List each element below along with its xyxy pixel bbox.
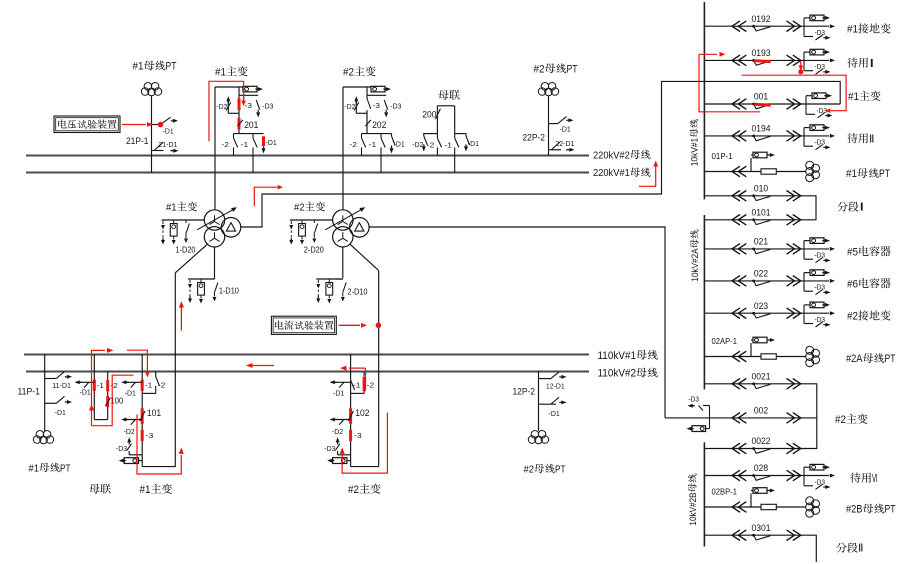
svg-text:-D2: -D2 [332,427,343,436]
svg-text:0193: 0193 [752,48,771,59]
svg-text:-D1: -D1 [266,138,277,147]
svg-text:22-D1: 22-D1 [556,139,575,148]
svg-text:#1: #1 [846,168,857,180]
svg-text:220kV#1: 220kV#1 [593,167,630,179]
svg-text:#2: #2 [294,202,305,214]
svg-text:2-D10: 2-D10 [348,288,368,297]
svg-text:-2: -2 [350,140,358,149]
svg-text:-D3: -D3 [815,140,826,147]
svg-text:-D2: -D2 [412,140,423,149]
svg-text:-2: -2 [222,140,230,149]
svg-text:02BP-1: 02BP-1 [712,487,738,497]
svg-text:-D1: -D1 [394,140,405,149]
svg-text:0301: 0301 [752,523,771,534]
svg-text:-D3: -D3 [817,108,828,115]
svg-text:#2B: #2B [846,504,863,516]
svg-text:-3: -3 [244,101,252,110]
svg-text:-2: -2 [158,381,166,390]
svg-text:0021: 0021 [752,372,771,383]
svg-text:#1: #1 [215,67,226,79]
svg-text:#2: #2 [534,63,545,75]
svg-text:#1: #1 [29,462,40,474]
svg-text:201: 201 [244,120,258,131]
svg-text:Ⅰ: Ⅰ [859,202,865,214]
svg-text:-D1: -D1 [55,408,66,417]
svg-text:21P-1: 21P-1 [126,136,149,146]
svg-text:102: 102 [355,408,369,419]
svg-text:#2: #2 [348,484,359,496]
svg-text:12P-2: 12P-2 [513,387,536,397]
svg-text:2-D20: 2-D20 [304,246,324,255]
svg-text:#2: #2 [847,311,858,323]
svg-text:PT: PT [879,168,890,180]
svg-text:#2: #2 [835,414,846,426]
svg-text:-D3: -D3 [689,397,700,404]
svg-text:-D1: -D1 [163,126,174,135]
svg-text:-D3: -D3 [815,285,826,292]
svg-text:0194: 0194 [752,124,771,135]
svg-text:-D3: -D3 [815,317,826,324]
svg-text:-1: -1 [145,381,153,390]
svg-text:01P-1: 01P-1 [712,151,733,161]
svg-text:-D3: -D3 [815,30,826,37]
svg-text:#1: #1 [133,61,144,73]
svg-text:#1: #1 [847,24,858,36]
svg-text:023: 023 [754,301,768,312]
svg-text:0101: 0101 [752,208,771,219]
svg-text:02AP-1: 02AP-1 [712,336,738,346]
svg-text:0022: 0022 [752,436,771,447]
svg-text:-3: -3 [146,431,154,440]
svg-text:Ⅱ: Ⅱ [858,543,864,555]
svg-text:-D1: -D1 [333,389,344,398]
svg-text:-D1: -D1 [560,124,571,133]
svg-text:PT: PT [567,63,578,75]
svg-text:-D3: -D3 [815,479,826,486]
svg-text:-2: -2 [367,381,375,390]
svg-text:#1: #1 [848,91,859,103]
svg-text:-D3: -D3 [324,444,335,453]
svg-text:1-D10: 1-D10 [219,287,239,296]
svg-text:Ⅰ: Ⅰ [869,58,875,70]
svg-text:-2: -2 [110,381,118,390]
svg-text:#6: #6 [847,278,858,290]
svg-text:-D2: -D2 [216,102,227,111]
svg-text:110kV#2: 110kV#2 [598,368,637,380]
svg-text:Ⅱ: Ⅱ [869,133,875,145]
svg-text:PT: PT [555,463,566,475]
svg-text:022: 022 [754,269,768,280]
svg-text:-3: -3 [354,431,362,440]
svg-text:-1: -1 [97,381,105,390]
svg-text:001: 001 [754,92,768,103]
svg-text:021: 021 [754,237,768,248]
svg-text:-D3: -D3 [390,102,401,111]
svg-text:202: 202 [372,120,386,131]
svg-text:-1: -1 [353,381,361,390]
svg-text:PT: PT [885,504,896,516]
svg-text:-3: -3 [372,101,380,110]
svg-text:PT: PT [60,462,71,474]
svg-text:#5: #5 [847,246,858,258]
svg-text:-D3: -D3 [815,253,826,260]
svg-text:0192: 0192 [752,14,771,25]
svg-text:101: 101 [147,408,161,419]
svg-text:1-D20: 1-D20 [176,246,196,255]
svg-text:-1: -1 [241,140,249,149]
svg-text:11-D1: 11-D1 [52,381,71,390]
svg-text:12-D1: 12-D1 [546,382,565,391]
svg-text:002: 002 [754,406,768,417]
svg-text:#2A: #2A [846,353,863,365]
svg-text:Ⅵ: Ⅵ [872,473,878,485]
svg-text:200: 200 [422,110,436,121]
svg-text:11P-1: 11P-1 [18,386,41,396]
svg-text:-1: -1 [444,140,452,149]
svg-text:010: 010 [754,184,768,195]
svg-text:#2: #2 [343,67,354,79]
svg-text:#2: #2 [524,463,535,475]
svg-text:#1: #1 [140,484,151,496]
svg-text:PT: PT [166,61,177,73]
svg-text:110kV#1: 110kV#1 [598,350,637,362]
svg-text:-D2: -D2 [124,427,135,436]
svg-text:-2: -2 [427,140,435,149]
svg-text:-D3: -D3 [815,64,826,71]
svg-text:220kV#2: 220kV#2 [593,149,630,161]
svg-text:-D1: -D1 [125,389,136,398]
svg-text:-D1: -D1 [549,409,560,418]
svg-text:-1: -1 [369,140,377,149]
svg-text:-D1: -D1 [468,139,479,148]
svg-text:-D1: -D1 [80,388,91,397]
svg-text:-D3: -D3 [262,102,273,111]
svg-text:10kV#2B: 10kV#2B [688,492,699,525]
svg-text:-D3: -D3 [116,444,127,453]
svg-text:10kV#1: 10kV#1 [689,138,700,167]
svg-text:10kV#2A: 10kV#2A [690,248,701,282]
svg-text:22P-2: 22P-2 [523,133,546,143]
svg-text:-D2: -D2 [344,102,355,111]
svg-text:028: 028 [754,463,768,474]
svg-text:21-D1: 21-D1 [159,140,178,149]
svg-text:#1: #1 [166,202,177,214]
svg-text:PT: PT [885,353,896,365]
